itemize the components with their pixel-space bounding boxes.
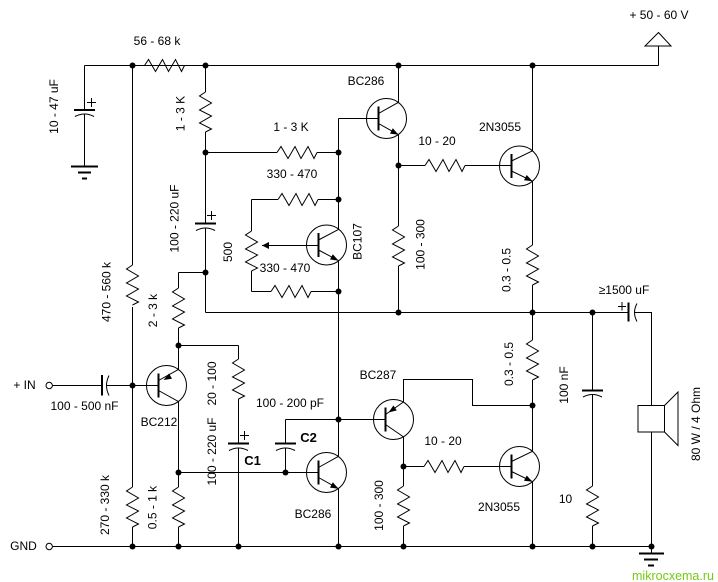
resistor 100-300 (upper) xyxy=(393,219,428,270)
wire BC287 emitter loop to x532 xyxy=(404,380,533,406)
node C rail xyxy=(176,470,182,476)
wire speaker to gnd xyxy=(651,432,653,547)
svg-text:C2: C2 xyxy=(300,430,317,445)
wire BC212 collector down xyxy=(178,402,180,487)
capacitor >=1500uF output xyxy=(599,283,650,322)
wire drive rail y472 xyxy=(179,472,319,474)
node x398 y165 xyxy=(396,163,402,169)
node gnd x532 xyxy=(530,544,536,550)
wire x205 cap to mid rail xyxy=(205,229,207,313)
wire 0.5-1k to gnd xyxy=(178,527,180,547)
svg-text:mikrocxema.ru: mikrocxema.ru xyxy=(632,569,714,582)
svg-text:100 nF: 100 nF xyxy=(557,366,571,403)
wire emitter node to 20-100 xyxy=(179,345,239,347)
node BC212 emitter xyxy=(176,343,182,349)
svg-text:330 - 470: 330 - 470 xyxy=(260,261,311,275)
wire 20-100 to C1 xyxy=(238,399,240,443)
resistor 20-100 xyxy=(205,359,245,406)
capacitor 100-500nF xyxy=(50,375,118,413)
potentiometer 500 xyxy=(221,231,319,271)
transistor Q5 BC286 (driver upper) xyxy=(348,74,407,139)
node gnd x178 xyxy=(176,544,182,550)
wire 2N3055t emitter down xyxy=(532,181,534,245)
node top rail x132 xyxy=(130,63,136,69)
node top rail x532 xyxy=(530,63,536,69)
transistor Q7 2N3055 (lower) xyxy=(478,447,540,515)
wire x205 to cap xyxy=(205,132,207,223)
svg-text:270 - 330 k: 270 - 330 k xyxy=(98,474,112,535)
svg-text:330 - 470: 330 - 470 xyxy=(267,167,318,181)
svg-text:0.3 - 0.5: 0.3 - 0.5 xyxy=(502,342,516,386)
svg-text:10 - 20: 10 - 20 xyxy=(418,134,456,148)
svg-text:80 W / 4 Ohm: 80 W / 4 Ohm xyxy=(689,387,703,461)
wire BC287 collector down xyxy=(403,437,405,467)
GND terminal xyxy=(10,539,52,553)
svg-text:BC212: BC212 xyxy=(141,415,178,429)
wire 0.3-0.5 to out rail xyxy=(532,285,534,313)
resistor 330-470 (lower) xyxy=(260,261,311,298)
svg-text:2N3055: 2N3055 xyxy=(478,500,520,514)
wire cap to ground xyxy=(84,115,86,167)
supply terminal +50-60V xyxy=(629,8,688,66)
svg-text:2 - 3 k: 2 - 3 k xyxy=(146,293,160,327)
wire left rail to input node xyxy=(132,307,134,386)
wire output rail y312 xyxy=(206,312,628,314)
wire left cap drop xyxy=(84,66,86,110)
transistor Q3 BC287 xyxy=(360,368,414,440)
node top rail x398 xyxy=(396,63,402,69)
wire cap to speaker corner xyxy=(635,313,652,406)
node x338 y152 xyxy=(336,150,342,156)
ground (right) xyxy=(639,547,664,566)
capacitor C2 100-200pF xyxy=(256,396,324,473)
node x205 y152 xyxy=(203,150,209,156)
svg-text:100 - 220 uF: 100 - 220 uF xyxy=(168,184,182,252)
svg-text:BC107: BC107 xyxy=(351,223,365,260)
svg-text:1 - 3 K: 1 - 3 K xyxy=(174,96,188,131)
node out x398 xyxy=(396,310,402,316)
svg-text:0.3 - 0.5: 0.3 - 0.5 xyxy=(500,248,514,292)
node gnd x592 xyxy=(590,544,596,550)
resistor 100-300 (lower) xyxy=(372,467,410,547)
wire top supply rail xyxy=(85,65,659,67)
capacitor 100-220uF (upper) xyxy=(168,184,217,252)
svg-text:+ 50 - 60 V: + 50 - 60 V xyxy=(629,8,688,22)
ground (left) xyxy=(71,167,98,179)
node out x592 xyxy=(590,310,596,316)
speaker 80W/4Ohm xyxy=(638,387,703,461)
wire 330-470 bottom row y291 xyxy=(252,291,339,293)
wire left rail upper xyxy=(132,66,134,266)
wire x532 to 2N3055b xyxy=(532,406,534,452)
resistor 270-330k xyxy=(98,474,139,535)
svg-text:100 - 200 pF: 100 - 200 pF xyxy=(256,396,324,410)
node gnd x338 xyxy=(336,544,342,550)
wire BC286t collector up xyxy=(398,66,400,103)
capacitor C1 100-220uF xyxy=(205,417,261,485)
node top rail x205 xyxy=(203,63,209,69)
wire x205 rail top xyxy=(205,66,207,93)
wire C1 to gnd rail xyxy=(238,449,240,547)
svg-text:≥1500 uF: ≥1500 uF xyxy=(599,283,650,297)
node C2 bottom xyxy=(283,470,289,476)
wire left rail to gnd xyxy=(132,527,134,547)
wire left rail lower xyxy=(132,386,134,488)
node gnd x132 xyxy=(130,544,136,550)
resistor 10 xyxy=(559,486,599,547)
svg-text:BC286: BC286 xyxy=(295,507,332,521)
svg-text:20 - 100: 20 - 100 xyxy=(205,361,219,405)
node gnd x403 xyxy=(401,544,407,550)
transistor Q4 BC107 xyxy=(307,223,365,265)
svg-text:10 - 47 uF: 10 - 47 uF xyxy=(47,79,61,134)
node gnd x238 xyxy=(236,544,242,550)
wire x338 rail mid xyxy=(338,261,340,457)
capacitor 10-47uF xyxy=(47,79,96,134)
resistor 2-3k xyxy=(146,288,185,328)
svg-text:2N3055: 2N3055 xyxy=(479,120,521,134)
node x205 y272 xyxy=(203,270,209,276)
transistor Q6 2N3055 (upper) xyxy=(479,120,540,186)
svg-text:56 - 68 k: 56 - 68 k xyxy=(134,34,182,48)
svg-text:100 - 300: 100 - 300 xyxy=(414,219,428,270)
svg-text:BC286: BC286 xyxy=(348,74,385,88)
svg-text:BC287: BC287 xyxy=(360,368,397,382)
input terminal xyxy=(13,378,52,392)
wire 2N3055b emitter to gnd xyxy=(532,482,534,547)
node x338 y291 xyxy=(336,289,342,295)
wire 2N3055t collector up xyxy=(532,66,534,151)
wire pot left drop xyxy=(251,200,253,232)
resistor 330-470 (upper) xyxy=(267,167,318,206)
transistor Q1 BC212 xyxy=(141,366,187,430)
node x338 y199 xyxy=(336,197,342,203)
wire x338 rail upper xyxy=(338,119,340,230)
resistor 0.3-0.5 (upper) xyxy=(500,245,539,292)
wire cap to base node xyxy=(107,385,159,387)
svg-text:470 - 560 k: 470 - 560 k xyxy=(100,261,114,322)
resistor 1-3K horizontal xyxy=(273,120,317,159)
svg-text:100 - 220 uF: 100 - 220 uF xyxy=(205,417,219,485)
node input xyxy=(130,383,136,389)
svg-text:500: 500 xyxy=(221,242,235,262)
capacitor 100nF xyxy=(557,313,603,487)
node x532 y405 xyxy=(530,403,536,409)
wire 1-3K row y152 xyxy=(206,152,339,154)
wire pot bottom xyxy=(251,271,253,292)
svg-text:10: 10 xyxy=(559,492,573,506)
svg-text:0.5 - 1 k: 0.5 - 1 k xyxy=(146,485,160,529)
resistor 0.5-1k xyxy=(146,485,185,529)
svg-text:+ IN: + IN xyxy=(13,378,35,392)
svg-text:100 - 500 nF: 100 - 500 nF xyxy=(50,399,118,413)
wire 2-3k to BC212 emitter xyxy=(178,328,180,369)
wire BC286t emitter down xyxy=(398,135,400,226)
wire BC286 top base xyxy=(339,118,379,120)
resistor 470-560k xyxy=(100,261,139,322)
svg-text:GND: GND xyxy=(10,539,37,553)
node x338 y419 xyxy=(336,417,342,423)
wire x338 rail lower xyxy=(338,489,340,547)
wire 100-300 to out rail xyxy=(398,266,400,313)
resistor 1-3K vertical xyxy=(174,92,212,132)
node gnd x651 xyxy=(649,544,655,550)
resistor 0.3-0.5 (lower) xyxy=(502,313,539,406)
transistor Q2 BC286 (driver lower) xyxy=(295,453,347,522)
wire C2 top to x338 rail xyxy=(286,419,386,421)
svg-text:C1: C1 xyxy=(244,453,261,468)
svg-text:1 - 3 K: 1 - 3 K xyxy=(273,120,308,134)
wire input to cap xyxy=(53,385,101,387)
node out x532 xyxy=(530,310,536,316)
resistor 10-20 (lower) xyxy=(404,434,512,473)
node x403 y466 xyxy=(401,464,407,470)
svg-text:100 - 300: 100 - 300 xyxy=(372,480,386,531)
wire 330-470 top row y199 xyxy=(252,199,339,201)
resistor 56-68k xyxy=(134,34,185,72)
resistor 10-20 (upper) xyxy=(399,134,512,172)
wire ground rail xyxy=(53,546,652,548)
svg-text:10 - 20: 10 - 20 xyxy=(424,434,462,448)
wire node205 to 2-3k xyxy=(179,272,206,274)
